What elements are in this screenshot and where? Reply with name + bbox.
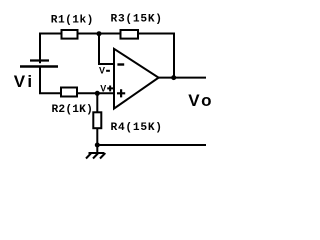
svg-text:V: V [99,66,105,76]
battery Vi long plate [20,65,58,67]
node A junction dot [97,31,102,36]
op-amp U1 triangle [114,49,159,109]
svg-text:R3(15K): R3(15K) [111,13,163,25]
svg-text:V: V [100,83,106,93]
svg-text:Vi: Vi [14,72,35,91]
op-amp non-inverting input plus sign [117,89,125,97]
resistor R3 [121,30,139,39]
node B junction dot (V+ node) [95,91,100,96]
resistor R4 [93,112,101,128]
output node junction dot [171,75,176,80]
wire R2 to node B to op-amp + input [78,92,115,94]
svg-text:R2(1K): R2(1K) [52,104,93,116]
wire R1 to node A to R3 [78,33,121,35]
resistor R2 [61,88,77,97]
ground rail wire to right [97,144,206,146]
op-amp inverting input minus sign [117,63,124,65]
wire R3 right, corner, down to output node [138,34,174,78]
ground symbol [86,145,105,159]
battery Vi short plate (top, negative) [30,59,49,61]
svg-text:R4(15K): R4(15K) [111,122,163,134]
wire battery bottom to R2 [40,67,62,94]
wire node B down to R4 [96,93,98,112]
svg-text:R1(1k): R1(1k) [51,14,94,26]
wire op-amp output to right edge [159,77,206,79]
resistor R1 [62,30,78,39]
wire top-left from Vi+ to R1 [40,34,62,64]
wire R4 bottom to ground node [96,128,98,145]
wire node A down to op-amp - input [99,34,114,65]
svg-text:Vo: Vo [188,91,214,110]
ground node junction dot [95,143,100,148]
